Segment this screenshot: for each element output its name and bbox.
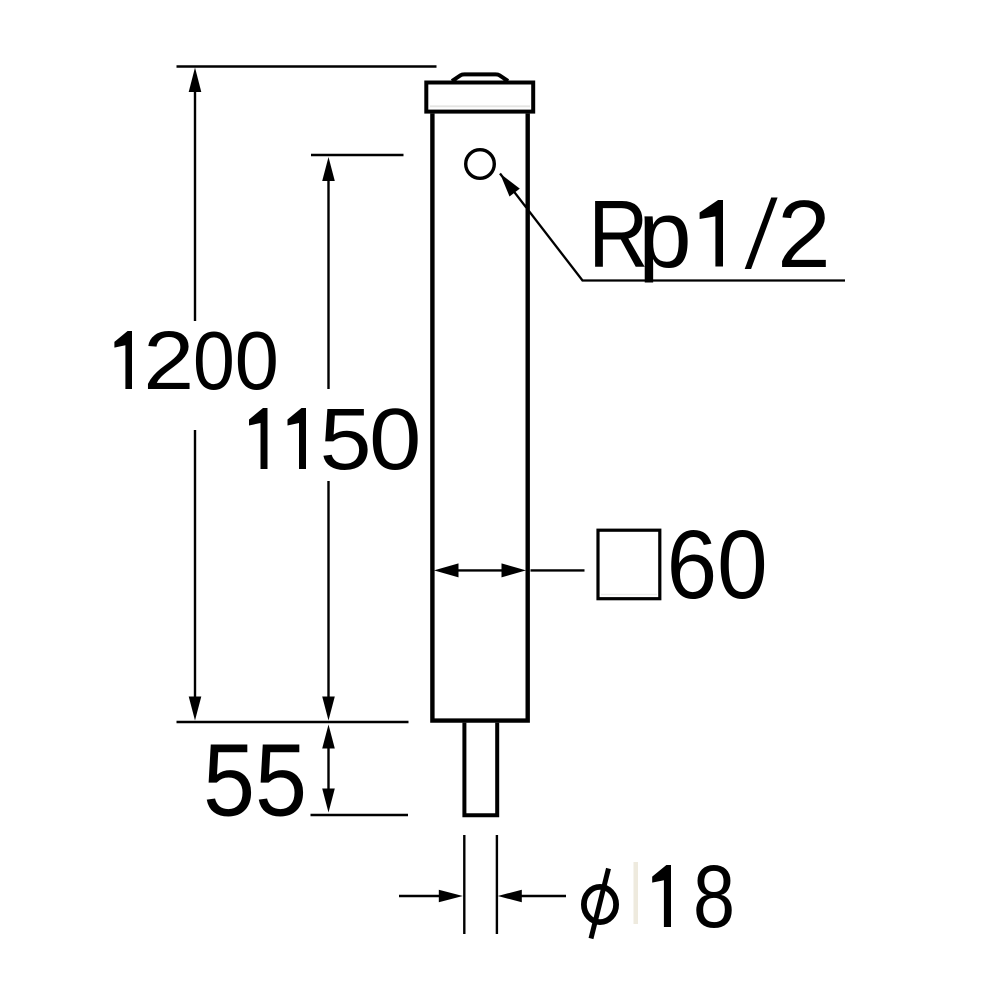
svg-text:55: 55 xyxy=(203,723,307,838)
label 18 xyxy=(652,865,671,927)
post column xyxy=(432,114,527,721)
svg-text:60: 60 xyxy=(667,510,768,619)
phi symbol slash xyxy=(591,869,609,939)
dimension line 55 shaft xyxy=(327,746,329,791)
faucet hole circle xyxy=(466,150,495,179)
arrowhead 1150 down xyxy=(322,697,335,721)
pipe extension line right xyxy=(496,835,498,934)
arrowhead 55 up xyxy=(322,725,335,749)
label 1200 xyxy=(114,331,132,389)
arrowhead 55 down xyxy=(322,789,335,813)
top extension line (1200 datum) xyxy=(177,65,437,68)
svg-text:p: p xyxy=(638,181,691,288)
dimension 60 tail line xyxy=(531,569,585,571)
arrowhead 1200 up xyxy=(189,68,202,93)
svg-text:8: 8 xyxy=(693,846,735,946)
phi18 right arrowhead xyxy=(498,890,522,903)
cap dome xyxy=(452,74,508,81)
arrowhead 1200 down xyxy=(189,697,202,721)
dimension 60 shaft xyxy=(456,569,504,571)
faint artifact line inside square xyxy=(601,594,657,596)
phi18 left arrow shaft xyxy=(399,895,441,897)
svg-text:0: 0 xyxy=(369,391,421,488)
phi symbol ellipse xyxy=(584,887,616,922)
svg-text:5: 5 xyxy=(320,391,372,488)
post pipe xyxy=(464,723,497,815)
dimension 60 left arrowhead xyxy=(434,563,459,577)
dimension line 1150 upper segment xyxy=(327,170,329,389)
dimension line 1200 upper segment xyxy=(194,80,196,321)
phi18 right arrow shaft xyxy=(520,895,566,897)
dimension line 1150 lower segment xyxy=(327,481,329,710)
label 1150 xyxy=(249,408,268,469)
post cap xyxy=(426,83,533,112)
pipe extension line left xyxy=(463,835,465,934)
svg-text:2: 2 xyxy=(143,314,194,407)
leader line Rp1/2 xyxy=(500,174,845,281)
square symbol xyxy=(598,530,660,599)
extension line 1150 xyxy=(311,154,404,157)
faint artifact line inside cap xyxy=(430,105,530,107)
svg-text:0: 0 xyxy=(193,314,235,407)
svg-text:2: 2 xyxy=(777,181,830,288)
arrowhead 1150 up xyxy=(322,157,335,181)
dimension 60 right arrowhead xyxy=(502,563,527,577)
faint artifact line near phi 18 xyxy=(634,862,639,924)
bottom extension line (column bottom datum) xyxy=(177,721,409,724)
svg-text:0: 0 xyxy=(235,314,279,407)
leader arrowhead xyxy=(500,174,520,197)
pipe bottom extension line (55 datum) xyxy=(311,814,409,817)
trim p descender xyxy=(642,283,654,295)
phi18 left arrowhead xyxy=(439,890,463,903)
dimension line 1200 lower segment xyxy=(194,430,196,710)
